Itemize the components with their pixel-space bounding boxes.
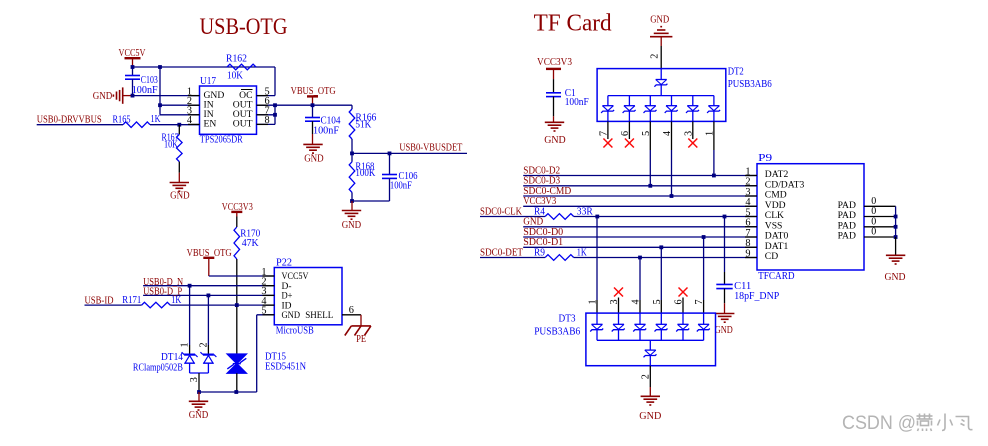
svg-text:10K: 10K bbox=[164, 140, 179, 151]
svg-text:USB-OTG: USB-OTG bbox=[200, 14, 288, 39]
svg-text:CD: CD bbox=[765, 251, 778, 262]
svg-text:3: 3 bbox=[189, 377, 200, 382]
svg-text:51K: 51K bbox=[355, 119, 372, 130]
svg-text:R9: R9 bbox=[534, 247, 545, 258]
svg-text:GND: GND bbox=[885, 272, 906, 283]
svg-text:TPS2065DR: TPS2065DR bbox=[200, 135, 243, 146]
svg-text:3: 3 bbox=[609, 299, 620, 304]
svg-text:2: 2 bbox=[641, 374, 652, 379]
svg-text:7: 7 bbox=[694, 299, 705, 304]
svg-text:R4: R4 bbox=[534, 207, 545, 218]
svg-text:GND: GND bbox=[715, 325, 733, 336]
svg-text:5: 5 bbox=[652, 299, 663, 304]
svg-text:PE: PE bbox=[356, 334, 366, 345]
svg-text:P9: P9 bbox=[758, 153, 772, 164]
svg-text:47K: 47K bbox=[242, 238, 260, 249]
svg-text:GND: GND bbox=[189, 410, 209, 421]
svg-text:PAD: PAD bbox=[838, 231, 856, 242]
svg-text:1K: 1K bbox=[171, 295, 182, 306]
svg-text:1: 1 bbox=[180, 342, 191, 347]
svg-text:2: 2 bbox=[650, 54, 661, 59]
svg-text:PUSB3AB6: PUSB3AB6 bbox=[728, 79, 772, 90]
svg-text:100nF: 100nF bbox=[565, 97, 589, 108]
svg-text:GND: GND bbox=[639, 411, 661, 422]
svg-text:100K: 100K bbox=[355, 168, 376, 179]
svg-text:TFCARD: TFCARD bbox=[758, 271, 795, 282]
svg-text:GND: GND bbox=[282, 310, 301, 321]
svg-text:SHELL: SHELL bbox=[305, 310, 333, 321]
svg-text:USB0-VBUSDET: USB0-VBUSDET bbox=[399, 143, 463, 154]
svg-text:GND: GND bbox=[650, 15, 669, 26]
svg-text:GND: GND bbox=[544, 135, 566, 146]
svg-text:OUT: OUT bbox=[233, 119, 253, 130]
svg-text:1K: 1K bbox=[151, 114, 162, 125]
svg-text:MicroUSB: MicroUSB bbox=[276, 326, 314, 337]
svg-text:1K: 1K bbox=[577, 247, 588, 258]
svg-text:TF Card: TF Card bbox=[534, 11, 612, 37]
svg-text:DT3: DT3 bbox=[559, 314, 576, 325]
svg-text:RClamp0502B: RClamp0502B bbox=[133, 362, 183, 373]
svg-text:4: 4 bbox=[631, 299, 642, 304]
svg-text:0: 0 bbox=[871, 227, 876, 238]
svg-text:SDC0-CLK: SDC0-CLK bbox=[480, 206, 523, 217]
svg-text:100nF: 100nF bbox=[132, 85, 158, 96]
svg-text:GND: GND bbox=[170, 191, 190, 202]
svg-text:ESD5451N: ESD5451N bbox=[265, 361, 307, 372]
svg-text:U17: U17 bbox=[200, 76, 216, 87]
svg-text:R171: R171 bbox=[122, 295, 141, 306]
svg-text:100nF: 100nF bbox=[390, 180, 412, 191]
svg-text:18pF_DNP: 18pF_DNP bbox=[734, 291, 779, 302]
svg-text:6: 6 bbox=[674, 299, 685, 304]
svg-text:USB0-DRVVBUS: USB0-DRVVBUS bbox=[37, 115, 102, 126]
svg-text:1: 1 bbox=[588, 299, 599, 304]
svg-text:GND: GND bbox=[93, 91, 113, 102]
svg-text:R162: R162 bbox=[226, 54, 247, 65]
svg-text:GND: GND bbox=[304, 154, 324, 165]
svg-text:SDC0-DET: SDC0-DET bbox=[480, 247, 524, 258]
svg-text:VCC3V3: VCC3V3 bbox=[537, 57, 572, 68]
svg-text:2: 2 bbox=[198, 342, 209, 347]
svg-text:P22: P22 bbox=[276, 257, 292, 268]
svg-text:EN: EN bbox=[204, 119, 217, 130]
svg-text:GND: GND bbox=[342, 220, 362, 231]
svg-text:DT2: DT2 bbox=[728, 66, 744, 77]
svg-text:PUSB3AB6: PUSB3AB6 bbox=[534, 326, 580, 337]
svg-text:10K: 10K bbox=[227, 71, 244, 82]
svg-text:100nF: 100nF bbox=[313, 125, 339, 136]
svg-text:VCC3V3: VCC3V3 bbox=[523, 196, 556, 207]
svg-text:CSDN @: CSDN @ bbox=[842, 413, 916, 434]
